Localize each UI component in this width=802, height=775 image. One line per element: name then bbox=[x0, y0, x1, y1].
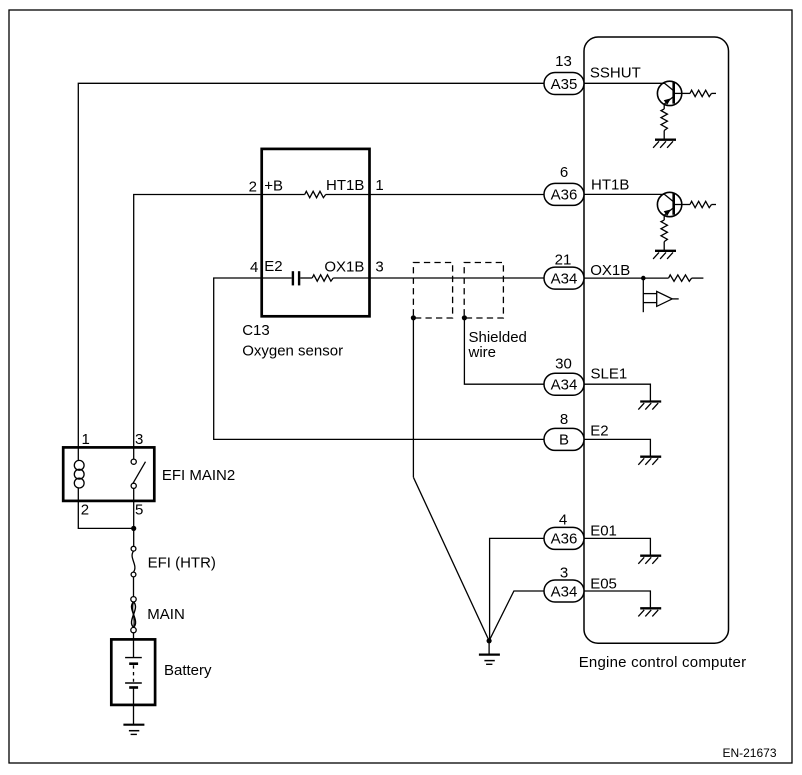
svg-text:13: 13 bbox=[555, 53, 572, 70]
svg-text:2: 2 bbox=[81, 502, 89, 519]
svg-text:OX1B: OX1B bbox=[590, 262, 630, 279]
svg-text:3: 3 bbox=[375, 259, 383, 276]
svg-text:C13: C13 bbox=[242, 322, 270, 339]
svg-text:4: 4 bbox=[559, 511, 567, 528]
svg-text:1: 1 bbox=[375, 177, 383, 194]
svg-text:A35: A35 bbox=[551, 76, 578, 93]
svg-text:SLE1: SLE1 bbox=[591, 366, 628, 383]
svg-text:EN-21673: EN-21673 bbox=[722, 746, 776, 760]
svg-text:+B: +B bbox=[264, 177, 283, 194]
svg-text:E2: E2 bbox=[264, 258, 282, 275]
svg-text:OX1B: OX1B bbox=[324, 259, 364, 276]
svg-text:8: 8 bbox=[560, 411, 568, 428]
svg-text:A36: A36 bbox=[551, 531, 578, 548]
svg-text:Battery: Battery bbox=[164, 662, 212, 679]
svg-text:3: 3 bbox=[560, 565, 568, 582]
svg-text:EFI (HTR): EFI (HTR) bbox=[148, 555, 216, 572]
svg-text:HT1B: HT1B bbox=[591, 177, 629, 194]
svg-text:wire: wire bbox=[468, 344, 497, 361]
svg-text:A34: A34 bbox=[551, 270, 578, 287]
svg-text:MAIN: MAIN bbox=[147, 606, 185, 623]
svg-text:1: 1 bbox=[82, 431, 90, 448]
svg-text:A34: A34 bbox=[551, 377, 578, 394]
svg-text:Engine control computer: Engine control computer bbox=[579, 654, 747, 671]
svg-text:4: 4 bbox=[250, 259, 258, 276]
svg-text:Oxygen sensor: Oxygen sensor bbox=[242, 343, 343, 360]
svg-text:B: B bbox=[559, 432, 569, 449]
svg-text:EFI MAIN2: EFI MAIN2 bbox=[162, 467, 235, 484]
svg-text:SSHUT: SSHUT bbox=[590, 65, 641, 82]
svg-text:3: 3 bbox=[135, 431, 143, 448]
svg-text:A34: A34 bbox=[551, 583, 578, 600]
svg-text:30: 30 bbox=[555, 356, 572, 373]
svg-text:E2: E2 bbox=[590, 422, 608, 439]
svg-text:5: 5 bbox=[135, 502, 143, 519]
svg-text:A36: A36 bbox=[551, 187, 578, 204]
svg-text:21: 21 bbox=[555, 251, 572, 268]
svg-text:HT1B: HT1B bbox=[326, 177, 364, 194]
svg-text:E01: E01 bbox=[590, 523, 617, 540]
svg-text:E05: E05 bbox=[590, 576, 617, 593]
svg-text:2: 2 bbox=[249, 178, 257, 195]
svg-text:6: 6 bbox=[560, 164, 568, 181]
